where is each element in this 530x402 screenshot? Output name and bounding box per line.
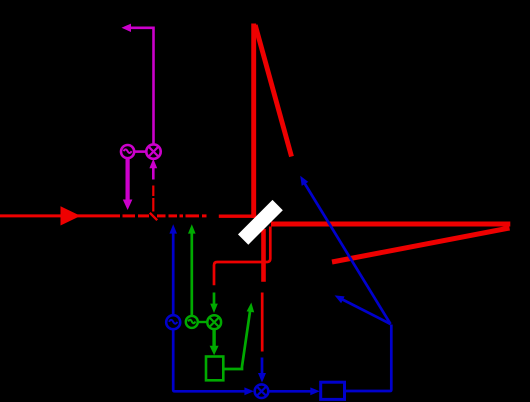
wire: magenta connector oscillator to mixer [134, 150, 146, 153]
beam splitter tick on main beam [150, 213, 157, 220]
wire: blue long arrow pointing at short pulse [300, 176, 390, 324]
wire: green arrow into green mixer from above [210, 293, 218, 314]
wire: blue rail from oscillator to mixer [173, 329, 254, 395]
stretched pulse leading edge (red horizontal beam) [271, 222, 510, 227]
wire: blue arrow up at beam [169, 224, 177, 315]
mixer (magenta, circle with X) [146, 144, 160, 158]
wire: blue arrow into blue mixer from red beam [258, 358, 266, 383]
wire: red beam segment before grating [219, 214, 256, 217]
wire: blue arrow mixer to box [268, 387, 320, 395]
oscillator (magenta local oscillator) [121, 145, 134, 158]
wire: red main oscillator beam (solid left part) [0, 214, 120, 217]
wire: green feedback arrow to beam [223, 303, 254, 370]
wire: green arrow mixer to integrator box [210, 329, 219, 355]
beam direction arrowhead [61, 206, 81, 225]
wire: magenta vertical from mixer to top [152, 27, 155, 145]
mixer (green, circle with X) [207, 315, 221, 329]
mixer (blue, circle with X) [255, 384, 269, 398]
short pulse trailing edge (red diagonal) [255, 25, 291, 157]
wire: red amplified beam down from grating (thick) [261, 229, 266, 282]
wire: red attenuated beam down (thin) [261, 293, 264, 352]
wire: green connector oscillator to mixer [198, 321, 208, 323]
box: green servo/integrator [206, 357, 223, 381]
short pulse leading edge (red vertical) [251, 24, 256, 219]
wire: red dashed pickoff vertical to magenta [152, 186, 154, 212]
wire: blue short arrow pointing at stretched pulse [335, 295, 391, 324]
grating / stretcher mirror (white rotated rectangle) [238, 200, 283, 245]
wire: blue from box up to comparison point [345, 325, 392, 392]
wire: red pickoff path to green mixer [214, 227, 270, 286]
wire: red dash-dot beam [123, 214, 207, 217]
wire: green arrow up at beam [188, 224, 196, 315]
box: blue servo [321, 382, 345, 399]
wire: magenta thick arrow down to main beam [123, 158, 133, 210]
oscillator (green) [186, 316, 198, 328]
wire: magenta feedback output, horizontal with left arrow [122, 24, 155, 32]
wire: magenta arrow up into mixer [149, 159, 157, 180]
oscillator (blue) [166, 315, 180, 329]
stretched pulse trailing edge (red diagonal) [332, 228, 510, 262]
